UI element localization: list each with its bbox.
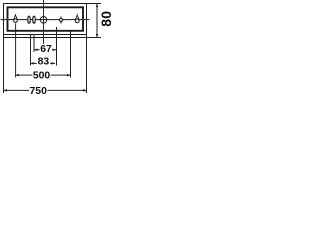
extension line lamp left (500): [15, 23, 17, 77]
fixture inner panel rectangle: [8, 7, 84, 31]
mounting slot left: [28, 16, 31, 23]
label 67: [40, 44, 53, 53]
extension line 67 left: [33, 35, 35, 53]
svg-text:750: 750: [30, 86, 48, 97]
center vertical line: [43, 0, 45, 46]
bottom lip line B: [3, 37, 87, 39]
svg-text:67: 67: [40, 44, 52, 55]
mounting slot right: [33, 16, 36, 23]
svg-text:80: 80: [98, 11, 113, 27]
dimension line 500: [15, 74, 71, 77]
ceiling mount circle with crosshair: [40, 17, 47, 24]
dimension line 750: [3, 89, 87, 92]
extension line right edge (750): [86, 35, 88, 94]
extension line 67/83 right: [56, 27, 58, 66]
svg-text:83: 83: [38, 57, 50, 68]
svg-text:500: 500: [33, 71, 51, 82]
extension line 80 top: [87, 3, 101, 5]
extension line 500 right: [70, 31, 72, 78]
extension line 80 bottom: [87, 37, 101, 39]
label 83: [37, 57, 50, 66]
background: [0, 0, 113, 97]
extension line left edge (750): [3, 35, 5, 94]
lamp socket symbol left: [14, 14, 18, 22]
dimension line 80 vertical: [96, 3, 99, 38]
lamp socket symbol right: [75, 14, 79, 22]
horizontal centerline: [1, 19, 90, 21]
extension line 83 left: [30, 35, 32, 66]
dimension line 83: [30, 62, 55, 65]
small stud with tick: [59, 16, 62, 23]
fixture outer body rectangle: [4, 4, 87, 35]
label 750: [29, 86, 47, 95]
bottom lip right end vertical: [86, 34, 88, 38]
label 500: [32, 71, 50, 80]
dimension line 67: [34, 49, 57, 52]
